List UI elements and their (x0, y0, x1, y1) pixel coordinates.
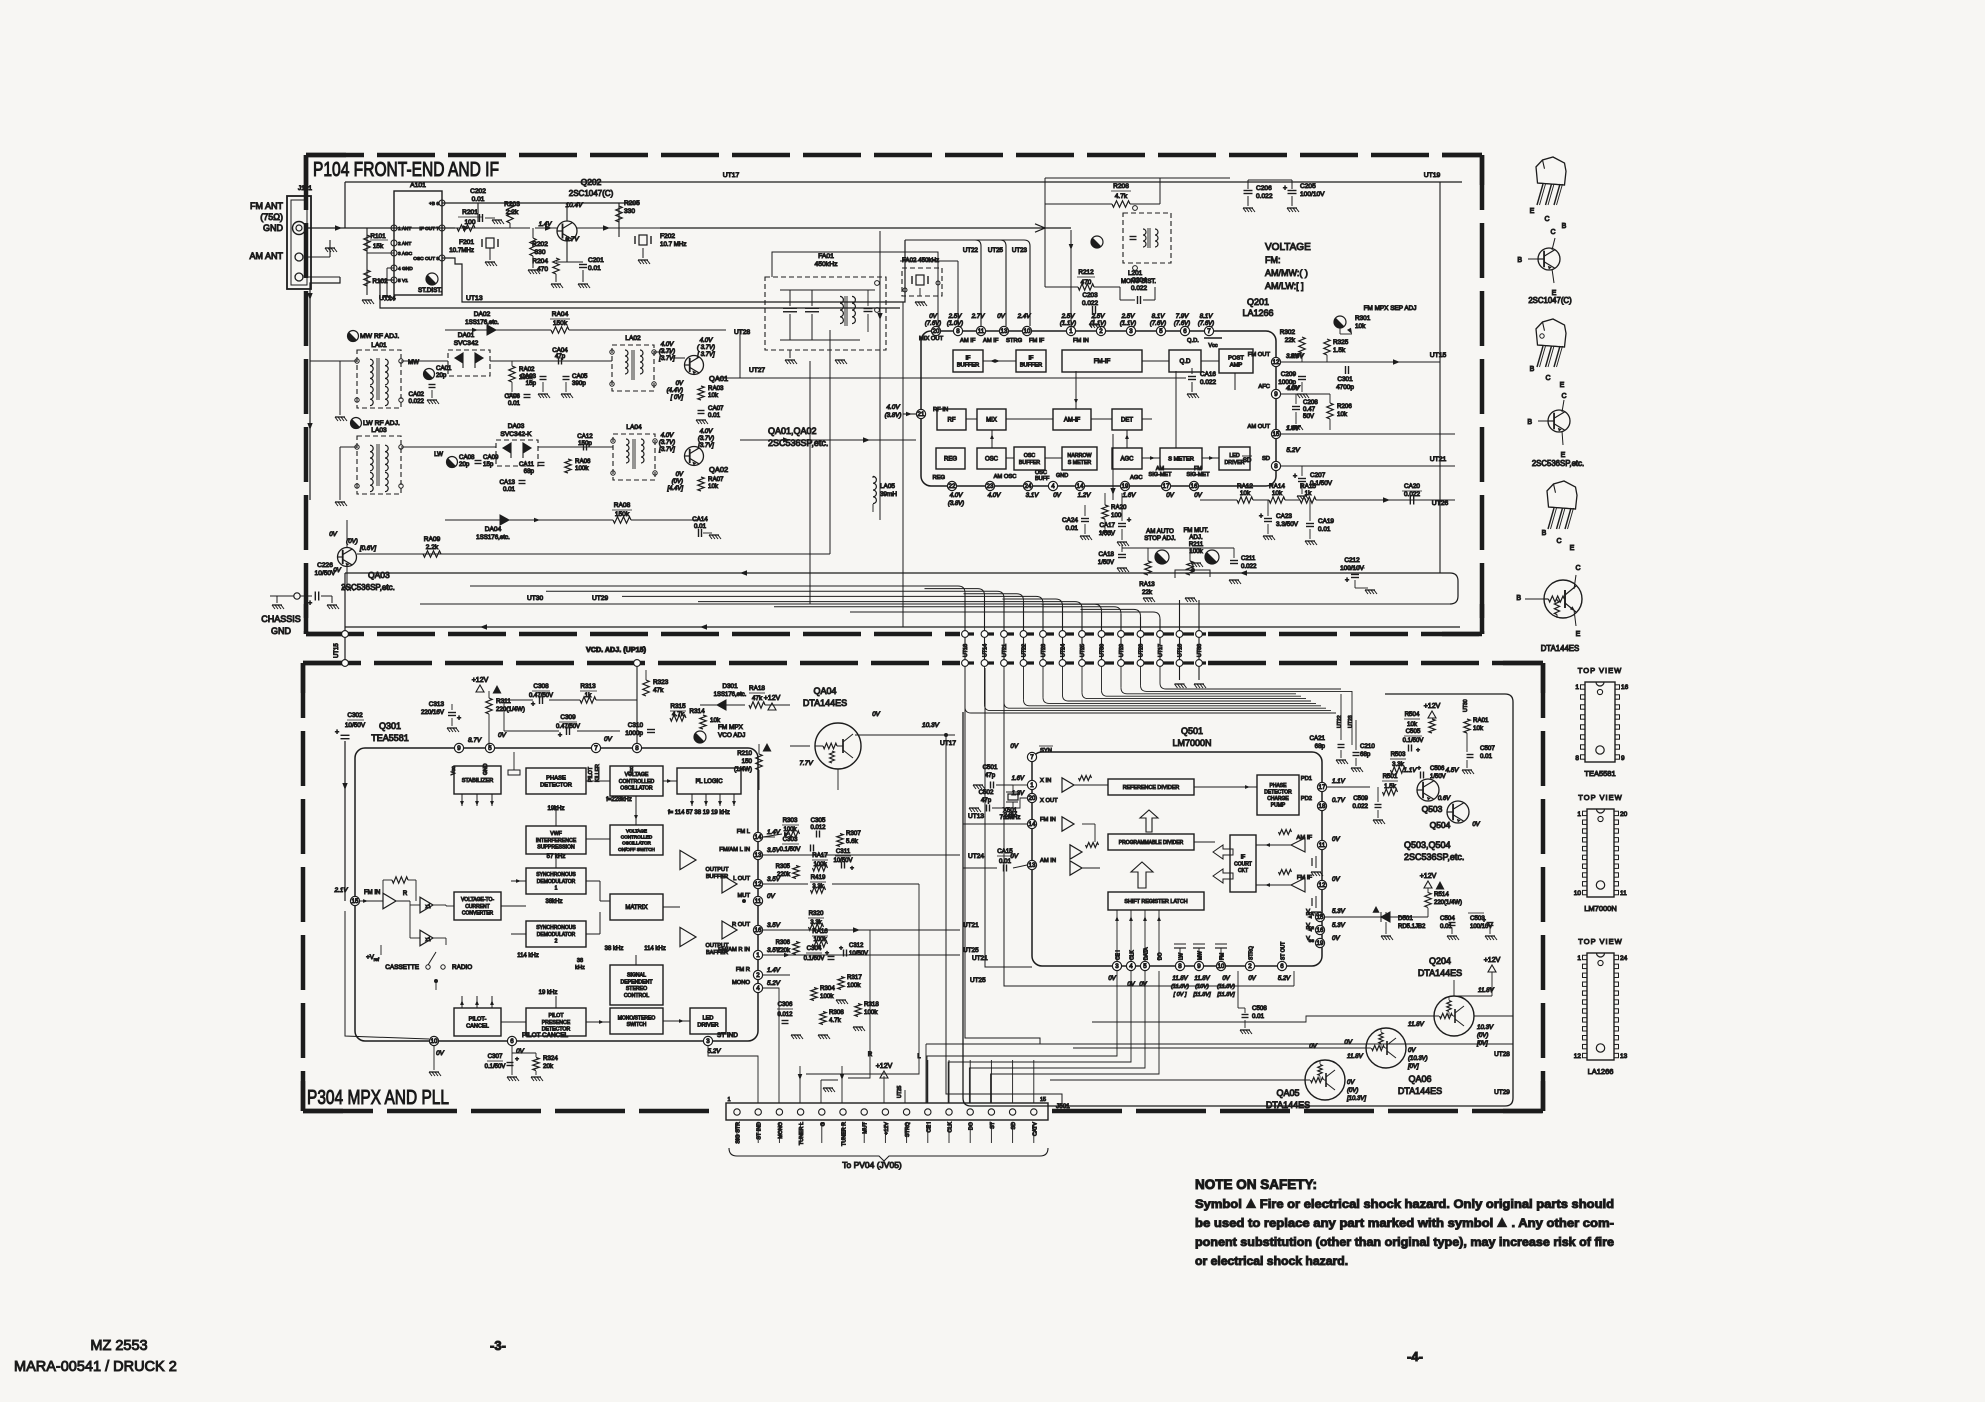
svg-text:R320: R320 (809, 910, 824, 917)
svg-text:C: C (1544, 216, 1549, 223)
svg-text:FM IN: FM IN (364, 890, 380, 896)
svg-text:R: R (403, 891, 408, 897)
svg-text:STOP ADJ.: STOP ADJ. (1144, 535, 1176, 542)
svg-text:470: 470 (537, 266, 548, 273)
svg-text:Q503,Q504: Q503,Q504 (1404, 840, 1451, 850)
svg-text:CA18: CA18 (1099, 551, 1115, 558)
svg-text:(3.7V): (3.7V) (659, 440, 675, 446)
svg-text:+: + (335, 729, 339, 736)
svg-text:FM L: FM L (737, 829, 751, 835)
svg-text:(7.6V): (7.6V) (1150, 321, 1166, 327)
svg-text:12: 12 (1574, 1053, 1582, 1060)
svg-text:20: 20 (933, 328, 940, 335)
svg-text:FM IF: FM IF (1029, 338, 1045, 344)
svg-text:CE I: CE I (926, 1122, 932, 1132)
svg-text:UT27: UT27 (749, 367, 765, 374)
svg-text:(75Ω): (75Ω) (260, 212, 283, 222)
svg-text:MUT: MUT (863, 1121, 869, 1133)
svg-text:RA13: RA13 (1139, 581, 1155, 588)
svg-text:50V: 50V (1303, 413, 1315, 420)
svg-text:DTA144ES: DTA144ES (803, 698, 847, 708)
svg-text:4.5V: 4.5V (1446, 767, 1460, 774)
svg-text:0V: 0V (1139, 982, 1147, 988)
svg-text:FM ANT: FM ANT (250, 201, 284, 211)
svg-text:LA1266: LA1266 (1242, 308, 1273, 318)
svg-text:4.0V: 4.0V (661, 341, 675, 348)
svg-text:R211: R211 (1189, 541, 1204, 548)
svg-text:+: + (515, 1056, 519, 1063)
svg-text:TUNER R: TUNER R (842, 1122, 848, 1146)
svg-text:0V: 0V (1222, 976, 1230, 982)
svg-text:10: 10 (431, 1038, 438, 1045)
svg-text:+: + (1416, 747, 1420, 754)
svg-text:0V: 0V (1053, 492, 1061, 499)
svg-text:[3.7V]: [3.7V] (658, 356, 675, 362)
svg-text:FM-IF: FM-IF (1094, 358, 1111, 365)
svg-text:11.8V: 11.8V (1194, 976, 1210, 982)
svg-text:10k: 10k (708, 483, 719, 490)
svg-text:LM7000N: LM7000N (1172, 738, 1211, 748)
svg-text:C: C (1550, 229, 1555, 236)
svg-text:+: + (825, 950, 829, 957)
svg-text:SD: SD (1243, 457, 1252, 464)
svg-text:FM IN: FM IN (1040, 817, 1056, 823)
svg-text:To PV04 (JV05): To PV04 (JV05) (842, 1160, 902, 1170)
svg-text:3.5V: 3.5V (767, 922, 781, 929)
svg-text:UT25: UT25 (897, 1086, 903, 1098)
svg-text:PD2: PD2 (1301, 796, 1312, 802)
svg-text:C506: C506 (1430, 766, 1445, 772)
svg-text:1SS176,etc.: 1SS176,etc. (714, 692, 747, 698)
svg-text:C: C (1575, 565, 1580, 572)
svg-text:+12V: +12V (472, 677, 489, 684)
svg-text:(11.8V): (11.8V) (1217, 984, 1235, 990)
svg-text:470: 470 (1081, 279, 1092, 286)
svg-text:R501: R501 (1383, 773, 1398, 780)
svg-text:100k: 100k (783, 827, 797, 833)
svg-text:PRESENCE: PRESENCE (542, 1020, 571, 1026)
svg-text:CHASSIS: CHASSIS (261, 614, 301, 624)
svg-text:C509: C509 (1353, 795, 1368, 802)
svg-text:CA06: CA06 (505, 393, 521, 400)
svg-text:R419: R419 (811, 874, 826, 881)
svg-text:0V: 0V (1194, 492, 1202, 499)
svg-text:10.3V: 10.3V (922, 722, 940, 729)
svg-text:STRQ: STRQ (1249, 946, 1255, 960)
svg-text:(3.7V): (3.7V) (698, 436, 714, 442)
svg-text:1: 1 (756, 952, 760, 959)
svg-text:R206: R206 (1337, 403, 1352, 410)
svg-text:2: 2 (555, 938, 558, 944)
svg-text:CONTROLLED: CONTROLLED (621, 835, 653, 840)
svg-text:15k: 15k (373, 243, 384, 250)
svg-text:C226: C226 (317, 562, 333, 569)
svg-text:0V: 0V (1108, 976, 1116, 982)
svg-text:GND: GND (271, 626, 292, 636)
svg-text:(7.6V): (7.6V) (1198, 321, 1214, 327)
svg-text:UT21: UT21 (1002, 644, 1008, 657)
svg-text:0V: 0V (676, 381, 684, 387)
svg-text:0.022: 0.022 (1404, 491, 1420, 498)
svg-text:REFERENCE DIVIDER: REFERENCE DIVIDER (1123, 785, 1180, 791)
svg-text:UT30: UT30 (1463, 699, 1469, 712)
svg-text:2.7V: 2.7V (971, 313, 986, 320)
svg-text:47p: 47p (981, 797, 992, 804)
svg-text:TUNER L: TUNER L (799, 1122, 805, 1145)
svg-text:MW: MW (1198, 951, 1204, 960)
svg-text:68p: 68p (1360, 751, 1371, 758)
svg-text:0.47/50V: 0.47/50V (529, 693, 553, 699)
svg-text:C307: C307 (488, 1053, 503, 1060)
svg-text:BUFFER: BUFFER (957, 363, 979, 369)
svg-text:QA02: QA02 (709, 465, 728, 474)
svg-text:47p: 47p (985, 772, 996, 779)
svg-text:C207: C207 (1310, 472, 1326, 479)
svg-text:100k: 100k (820, 993, 834, 1000)
svg-text:0.6V: 0.6V (1438, 796, 1451, 802)
svg-text:SYNCHRONOUS: SYNCHRONOUS (536, 925, 576, 931)
svg-text:0.012: 0.012 (777, 1012, 793, 1018)
svg-text:R314: R314 (689, 708, 705, 715)
svg-text:SWITCH: SWITCH (627, 1022, 647, 1028)
svg-text:REG: REG (944, 457, 957, 463)
svg-text:TOP VIEW: TOP VIEW (1578, 666, 1622, 675)
svg-text:2.1V: 2.1V (334, 887, 349, 894)
svg-text:2 ANT: 2 ANT (398, 241, 411, 247)
svg-text:3.3/50V: 3.3/50V (1276, 521, 1299, 528)
svg-text:8.1V: 8.1V (1152, 313, 1166, 320)
svg-text:BUFFER: BUFFER (1019, 460, 1040, 466)
svg-text:R205: R205 (624, 200, 640, 207)
svg-text:+: + (1345, 577, 1349, 584)
svg-text:SIGNAL: SIGNAL (627, 973, 646, 979)
svg-text:STRG: STRG (1006, 338, 1023, 344)
svg-text:ST IND: ST IND (757, 1122, 763, 1140)
svg-text:20p: 20p (436, 372, 447, 379)
svg-text:1: 1 (727, 1097, 730, 1103)
svg-text:C301: C301 (1337, 376, 1353, 383)
svg-text:C303: C303 (783, 836, 798, 843)
svg-text:1: 1 (555, 885, 558, 891)
svg-text:UT18: UT18 (1178, 644, 1184, 657)
svg-text:UT29: UT29 (592, 595, 608, 602)
svg-text:CA14: CA14 (692, 516, 708, 523)
svg-text:RF IN: RF IN (933, 407, 948, 413)
svg-text:+12V: +12V (884, 1122, 890, 1135)
svg-text:X OUT: X OUT (1040, 798, 1058, 804)
svg-text:(1.1V): (1.1V) (1060, 321, 1076, 327)
svg-text:2.2k: 2.2k (426, 544, 439, 551)
svg-text:ON/OFF SWITCH: ON/OFF SWITCH (618, 847, 655, 852)
svg-text:IF OUT 7: IF OUT 7 (419, 226, 439, 232)
svg-text:UT23: UT23 (1041, 644, 1047, 657)
svg-text:PD1: PD1 (1301, 776, 1312, 782)
svg-text:5: 5 (1143, 963, 1147, 970)
svg-text:AMP: AMP (1230, 363, 1243, 369)
svg-text:3.3k: 3.3k (810, 920, 822, 926)
svg-text:0V: 0V (498, 732, 507, 739)
svg-text:(1.1V): (1.1V) (1120, 321, 1136, 327)
svg-text:UT22: UT22 (1022, 644, 1028, 657)
svg-text:100k: 100k (813, 937, 827, 943)
svg-text:be used to replace any part ma: be used to replace any part marked with … (1195, 1216, 1614, 1230)
svg-text:C306: C306 (778, 1001, 793, 1008)
svg-text:UT33: UT33 (1197, 644, 1203, 657)
svg-text:POST: POST (1228, 355, 1244, 361)
svg-text:[4.4V]: [4.4V] (666, 486, 683, 492)
svg-text:1SS176,etc.: 1SS176,etc. (476, 534, 510, 541)
svg-text:CANCEL: CANCEL (466, 1024, 489, 1030)
svg-text:UT29: UT29 (1494, 1089, 1510, 1096)
svg-text:C505: C505 (1406, 728, 1421, 735)
svg-text:47k: 47k (653, 687, 664, 694)
svg-text:BUFFER: BUFFER (1020, 363, 1042, 369)
svg-text:ponent substitution (other tha: ponent substitution (other than original… (1195, 1235, 1614, 1249)
svg-text:R307: R307 (846, 830, 861, 837)
svg-text:(0V): (0V) (672, 479, 683, 485)
svg-text:0.47/50V: 0.47/50V (556, 724, 580, 730)
svg-text:0.022: 0.022 (1200, 379, 1216, 386)
svg-text:E: E (1530, 208, 1535, 215)
svg-text:R304: R304 (820, 985, 835, 992)
svg-text:4.0V: 4.0V (661, 432, 675, 439)
svg-text:CA21: CA21 (1310, 735, 1326, 742)
svg-text:BAFFER: BAFFER (706, 950, 728, 956)
svg-text:150k: 150k (553, 320, 568, 327)
svg-text:UT13: UT13 (963, 644, 969, 657)
svg-text:2: 2 (1248, 963, 1252, 970)
svg-text:RA03: RA03 (708, 385, 724, 392)
svg-text:AM AUTO: AM AUTO (1146, 528, 1174, 535)
svg-text:SHIFT REGISTER LATCH: SHIFT REGISTER LATCH (1124, 899, 1187, 905)
svg-text:PILOT: PILOT (549, 1013, 565, 1019)
svg-text:11.8V: 11.8V (1172, 976, 1188, 982)
svg-text:STRQ: STRQ (905, 1122, 911, 1137)
svg-text:R202: R202 (532, 241, 548, 248)
svg-text:330: 330 (624, 208, 635, 215)
svg-text:C: C (1561, 393, 1566, 400)
svg-text:CA08: CA08 (459, 454, 475, 461)
svg-text:UT24: UT24 (1061, 644, 1067, 657)
svg-text:UT17: UT17 (723, 172, 740, 179)
svg-text:12: 12 (755, 881, 762, 888)
svg-text:5.3V: 5.3V (1332, 922, 1346, 929)
svg-text:220k: 220k (777, 948, 791, 954)
svg-text:1: 1 (1577, 955, 1581, 962)
svg-text:FM IN: FM IN (1073, 338, 1089, 344)
svg-text:150: 150 (742, 758, 753, 765)
svg-text:1.1V: 1.1V (1332, 778, 1346, 785)
svg-text:CHARGE: CHARGE (1267, 796, 1289, 802)
svg-text:MIX OUT: MIX OUT (919, 336, 944, 342)
svg-text:0V: 0V (516, 1048, 525, 1055)
svg-text:+: + (839, 945, 843, 952)
svg-text:8: 8 (1274, 463, 1278, 470)
svg-text:DA04: DA04 (485, 526, 502, 533)
svg-text:-3-: -3- (490, 1338, 506, 1353)
svg-text:14: 14 (755, 834, 762, 841)
svg-text:PILOT CANCEL: PILOT CANCEL (522, 1032, 568, 1039)
svg-text:R: R (868, 1052, 873, 1058)
svg-text:24: 24 (1025, 483, 1032, 490)
svg-text:19: 19 (1317, 940, 1324, 947)
svg-text:220/16V: 220/16V (421, 709, 445, 716)
svg-text:(3.7V): (3.7V) (659, 349, 675, 355)
svg-text:2: 2 (756, 972, 760, 979)
svg-text:ST IND: ST IND (717, 1032, 738, 1039)
svg-text:100k: 100k (1189, 548, 1203, 555)
svg-text:Q301: Q301 (379, 721, 401, 731)
svg-text:(1.0V): (1.0V) (947, 321, 963, 327)
svg-text:FM OUT: FM OUT (1248, 352, 1271, 358)
svg-text:UT13: UT13 (466, 295, 483, 302)
svg-text:CE I: CE I (1116, 950, 1122, 960)
svg-text:DTA144ES: DTA144ES (1266, 1100, 1310, 1110)
svg-text:1/50V: 1/50V (1098, 559, 1115, 566)
svg-text:0.01: 0.01 (999, 858, 1012, 865)
svg-text:2SC1047(C): 2SC1047(C) (1528, 296, 1572, 305)
svg-text:R324: R324 (543, 1055, 558, 1062)
svg-text:1 ANT: 1 ANT (398, 226, 411, 232)
svg-text:0V: 0V (1010, 743, 1018, 750)
svg-text:(11.8V): (11.8V) (1171, 984, 1189, 990)
svg-text:DETECTOR: DETECTOR (1264, 789, 1292, 795)
svg-text:AM ANT: AM ANT (249, 251, 283, 261)
svg-text:LW: LW (434, 451, 443, 458)
svg-text:(4.4V): (4.4V) (667, 388, 683, 394)
svg-text:Q504: Q504 (1430, 820, 1451, 830)
svg-text:10k: 10k (1407, 721, 1418, 728)
svg-text:0.01: 0.01 (503, 486, 516, 493)
svg-text:UT17: UT17 (940, 740, 956, 747)
svg-text:220k: 220k (777, 872, 791, 878)
svg-text:C210: C210 (1360, 743, 1375, 750)
svg-text:0.01: 0.01 (588, 265, 601, 272)
svg-text:VOLTAGE: VOLTAGE (626, 828, 647, 833)
svg-text:1.6V: 1.6V (1286, 425, 1300, 432)
svg-text:VOLTAGE: VOLTAGE (1265, 242, 1311, 253)
svg-text:5.3V: 5.3V (1332, 908, 1346, 915)
svg-text:AM-IF: AM-IF (1064, 418, 1081, 424)
svg-text:B: B (1562, 223, 1567, 230)
svg-text:CATV: CATV (1032, 1122, 1038, 1136)
svg-text:15: 15 (1273, 431, 1280, 438)
svg-text:330: 330 (534, 249, 545, 256)
svg-text:C202: C202 (470, 188, 486, 195)
svg-text:R504: R504 (1405, 711, 1420, 718)
svg-text:RADIO: RADIO (452, 964, 472, 971)
svg-text:C310: C310 (628, 722, 644, 729)
svg-text:5: 5 (1159, 328, 1163, 335)
svg-text:1.3V: 1.3V (1012, 791, 1025, 797)
svg-text:1000p: 1000p (625, 730, 643, 737)
svg-text:STABILIZER: STABILIZER (462, 778, 494, 784)
svg-text:SVC342: SVC342 (454, 340, 479, 347)
svg-text:16: 16 (1621, 684, 1629, 691)
svg-text:4: 4 (756, 985, 760, 992)
svg-text:0.01: 0.01 (472, 196, 485, 203)
svg-text:1: 1 (1030, 782, 1034, 789)
svg-text:kHz: kHz (575, 965, 585, 971)
svg-text:+: + (558, 732, 562, 739)
svg-text:CLK: CLK (1130, 950, 1136, 960)
svg-text:R208: R208 (1113, 183, 1129, 190)
svg-text:C312: C312 (849, 943, 864, 949)
svg-text:AM OSC: AM OSC (994, 474, 1017, 480)
svg-text:UT17: UT17 (1158, 644, 1164, 657)
svg-text:DA02: DA02 (474, 311, 491, 318)
svg-text:0.022: 0.022 (409, 398, 425, 405)
svg-text:47k: 47k (752, 695, 763, 702)
svg-text:GND: GND (483, 763, 489, 775)
svg-text:10/50V: 10/50V (315, 570, 337, 577)
svg-text:DET: DET (1121, 418, 1133, 424)
svg-text:RD5.1JB2: RD5.1JB2 (1398, 924, 1426, 930)
svg-text:OSCILLATOR: OSCILLATOR (622, 841, 651, 846)
svg-text:47p: 47p (555, 353, 566, 360)
svg-text:[11.8V]: [11.8V] (1192, 992, 1211, 998)
svg-text:0V: 0V (1166, 492, 1174, 499)
svg-text:AM IF: AM IF (960, 338, 976, 344)
svg-text:0.01: 0.01 (1066, 525, 1079, 532)
svg-text:SUPPRESSION: SUPPRESSION (537, 845, 575, 851)
svg-text:7: 7 (1030, 754, 1034, 761)
svg-text:0.022: 0.022 (1353, 803, 1369, 810)
svg-text:R315: R315 (670, 703, 686, 710)
svg-text:16: 16 (755, 927, 762, 934)
svg-text:(3.8V): (3.8V) (948, 501, 964, 507)
svg-text:0V: 0V (604, 736, 613, 743)
svg-text:CA17: CA17 (1100, 522, 1116, 529)
svg-text:1: 1 (1577, 811, 1581, 818)
svg-text:GND: GND (1056, 473, 1068, 479)
svg-text:C313: C313 (429, 701, 445, 708)
svg-text:11.8V: 11.8V (1347, 1053, 1364, 1060)
svg-text:(0V): (0V) (1477, 1033, 1488, 1039)
svg-text:0V: 0V (1332, 836, 1340, 843)
svg-text:11: 11 (1620, 890, 1627, 897)
svg-text:2SC536SP,etc.: 2SC536SP,etc. (1404, 852, 1464, 862)
svg-text:(0V): (0V) (346, 538, 358, 545)
svg-text:B: B (1527, 419, 1532, 426)
svg-text:C502: C502 (979, 789, 994, 796)
svg-text:CA05: CA05 (572, 373, 588, 380)
svg-text:DA01: DA01 (458, 332, 475, 339)
svg-text:CA11: CA11 (519, 461, 535, 468)
svg-text:CA15: CA15 (997, 848, 1013, 855)
svg-text:1.1V: 1.1V (1404, 767, 1418, 774)
svg-text:LA01: LA01 (371, 342, 387, 349)
svg-text:C203: C203 (1082, 292, 1098, 299)
svg-text:A101: A101 (410, 182, 426, 189)
svg-text:+: + (1417, 765, 1421, 772)
svg-text:1.5k: 1.5k (1333, 347, 1346, 354)
svg-text:I²L LOGIC: I²L LOGIC (695, 779, 723, 785)
svg-text:3: 3 (706, 1038, 710, 1045)
svg-text:1.6V: 1.6V (1012, 776, 1025, 782)
svg-text:B: B (1542, 530, 1547, 537)
svg-text:+12V: +12V (1424, 703, 1441, 710)
svg-text:R OUT: R OUT (732, 922, 750, 928)
svg-text:1k: 1k (1305, 490, 1313, 497)
svg-text:UT23: UT23 (1348, 715, 1354, 728)
svg-text:0.022: 0.022 (1241, 563, 1257, 570)
svg-text:38 kHz: 38 kHz (605, 946, 624, 952)
svg-text:CONTROLLED: CONTROLLED (619, 779, 655, 785)
svg-text:[ 0V ]: [ 0V ] (1172, 992, 1187, 998)
svg-text:CA12: CA12 (577, 433, 593, 440)
svg-text:+: + (1259, 513, 1263, 520)
